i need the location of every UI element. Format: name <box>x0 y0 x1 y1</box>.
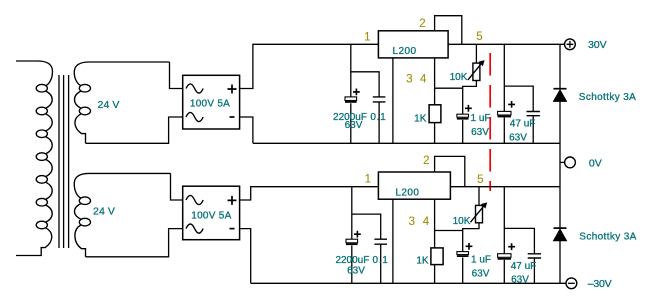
svg-text:5: 5 <box>476 31 482 43</box>
wire: top ground rail (0V) <box>253 142 560 144</box>
svg-text:3: 3 <box>406 74 412 86</box>
capacitor C8 1uF wire <box>462 231 464 284</box>
diode D2 Schottky wire <box>559 187 561 284</box>
svg-text:100V 5A: 100V 5A <box>191 210 231 221</box>
wire: U1 pin 2 loop to output <box>435 16 462 45</box>
wire: U2 pin 4 to feedback node <box>435 199 463 230</box>
capacitor C6 2200uF plates <box>346 239 358 243</box>
BR1 minus mark <box>230 116 235 118</box>
capacitor C9 47uF wire <box>503 187 505 284</box>
wire: S2 top lead to bridge BR2 input <box>171 173 183 200</box>
svg-text:63V: 63V <box>472 268 490 279</box>
bridge rectifier BR2 box <box>183 186 240 240</box>
diode D2 Schottky <box>554 228 567 241</box>
transformer core <box>59 75 69 248</box>
resistor R2 1K <box>434 231 436 284</box>
C1 plus mark <box>353 89 360 96</box>
capacitor C3 1uF wire <box>462 88 464 143</box>
red dashed boundary line <box>489 53 491 191</box>
terminal +30V <box>565 39 576 50</box>
svg-text:4: 4 <box>423 216 430 228</box>
wire: BR2 + output to input rail of U2 <box>240 187 379 200</box>
svg-text:1 uF: 1 uF <box>470 113 490 124</box>
svg-text:–30V: –30V <box>588 278 612 290</box>
svg-text:30V: 30V <box>588 39 607 51</box>
BR1 AC symbol top <box>186 84 203 93</box>
svg-text:Schottky 3A: Schottky 3A <box>579 92 636 103</box>
BR2 AC symbol top <box>186 195 203 204</box>
capacitor C5 plates <box>527 112 540 116</box>
capacitor C2 0.1 plates <box>373 97 386 102</box>
wire: U2 pin 2 loop to output <box>435 156 465 186</box>
wire: C7 tap jog <box>352 214 381 283</box>
svg-text:63V: 63V <box>509 132 527 143</box>
BR1 plus mark <box>228 85 237 94</box>
wire: U1 pin 3 to ground rail <box>392 58 394 143</box>
svg-text:1: 1 <box>365 173 371 185</box>
potentiometer RV2 10K <box>463 187 488 231</box>
wire: S1 bottom lead to bridge BR1 input <box>86 117 183 143</box>
capacitor C6 2200uF wire <box>351 187 353 284</box>
svg-text:1 uF: 1 uF <box>471 254 491 265</box>
capacitor C1 2200uF wire <box>350 44 352 143</box>
resistor R1 1K <box>434 88 436 143</box>
potentiometer RV1 10K <box>463 44 485 88</box>
svg-text:2200uF: 2200uF <box>335 255 369 266</box>
svg-text:3: 3 <box>409 216 415 228</box>
svg-text:L200: L200 <box>395 188 419 199</box>
BR2 minus mark <box>230 228 235 230</box>
BR2 AC symbol bottom <box>186 224 203 233</box>
BR1 AC symbol bottom <box>186 112 203 121</box>
terminal 0V <box>560 161 565 163</box>
capacitor C3 1uF plates <box>457 114 469 117</box>
C9 plus mark <box>508 243 515 250</box>
capacitor C1 2200uF plates <box>345 97 357 101</box>
svg-text:2: 2 <box>419 18 425 30</box>
svg-text:24 V: 24 V <box>93 205 115 217</box>
svg-text:100V 5A: 100V 5A <box>190 99 230 110</box>
transformer T1 primary winding <box>16 61 52 256</box>
C4 plus mark <box>508 101 515 108</box>
svg-text:0V: 0V <box>589 157 602 169</box>
wire: U2 pin 3 to -30V rail <box>392 199 394 283</box>
wire: C5 tap jog <box>504 86 533 143</box>
capacitor C4 47uF wire <box>503 44 505 143</box>
wire: C10 tap jog <box>504 228 534 283</box>
regulator U2 L200 box <box>378 172 450 199</box>
C8 plus mark <box>466 243 473 250</box>
svg-text:1K: 1K <box>416 256 429 267</box>
wire: U1 pin 4 to feedback node <box>435 58 463 88</box>
svg-text:0.1: 0.1 <box>372 255 388 266</box>
svg-text:47 uF: 47 uF <box>510 118 536 129</box>
output rail +30V <box>448 43 565 45</box>
terminal -30V <box>566 278 577 289</box>
svg-text:63V: 63V <box>511 275 529 286</box>
diode D1 Schottky wire <box>559 44 561 186</box>
capacitor C8 1uF plates <box>457 252 469 255</box>
svg-text:63V: 63V <box>471 127 489 138</box>
svg-text:10K: 10K <box>450 72 468 83</box>
svg-text:Schottky 3A: Schottky 3A <box>579 231 636 242</box>
svg-text:1K: 1K <box>414 113 427 124</box>
svg-text:0.1: 0.1 <box>370 112 386 123</box>
wire: S1 top lead to bridge BR1 input <box>170 62 183 89</box>
svg-text:10K: 10K <box>453 216 471 227</box>
transformer T1 secondary winding S2 <box>74 173 170 256</box>
regulator U1 L200 box <box>378 31 448 58</box>
C6 plus mark <box>354 231 361 238</box>
capacitor C9 47uF plates <box>498 254 511 258</box>
svg-text:63V: 63V <box>345 120 363 131</box>
bottom rail (-30V) <box>251 282 567 284</box>
capacitor C10 plates <box>528 254 541 258</box>
svg-text:4: 4 <box>420 74 427 86</box>
bridge rectifier BR1 box <box>183 75 240 129</box>
svg-text:47 uF: 47 uF <box>511 261 537 272</box>
svg-text:5: 5 <box>477 174 483 186</box>
wire: C2 tap jog <box>351 72 379 144</box>
BR2 plus mark <box>228 196 237 205</box>
svg-text:1: 1 <box>364 31 370 43</box>
diode D1 Schottky <box>554 89 567 102</box>
svg-text:63V: 63V <box>347 266 365 277</box>
svg-text:L200: L200 <box>392 46 416 57</box>
capacitor C7 0.1 plates <box>374 239 387 244</box>
wire: BR2 - output to -30V rail <box>240 229 251 284</box>
transformer T1 secondary winding S1 <box>74 62 169 143</box>
svg-text:2: 2 <box>423 155 429 167</box>
output rail of U2 (0V side) <box>450 186 560 188</box>
wire: BR1 - output to ground rail <box>240 117 253 143</box>
wire: S2 bottom lead to bridge BR2 input <box>86 229 183 257</box>
wire: BR1 + output to input rail of U1 <box>240 44 379 88</box>
svg-text:24 V: 24 V <box>98 99 120 111</box>
capacitor C4 47uF plates <box>498 111 511 115</box>
C3 plus mark <box>465 105 472 112</box>
